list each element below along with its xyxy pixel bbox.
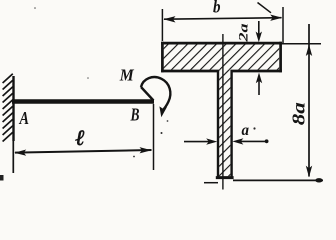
extension line left (below wall) — [12, 141, 14, 173]
dimension a: left arrow — [184, 141, 212, 143]
dimension b: extension lines — [161, 9, 163, 41]
leader slash at top right — [258, 3, 272, 13]
svg-text:b: b — [213, 0, 221, 17]
2a lower arrow — [258, 80, 260, 95]
2a upper arrow — [258, 21, 260, 38]
svg-text:M: M — [119, 66, 135, 85]
scan specks — [133, 156, 135, 158]
svg-text:ℓ: ℓ — [76, 125, 85, 150]
web hatching — [219, 70, 230, 177]
bottom extension line — [204, 182, 218, 184]
T cross-section: flange hatching — [164, 44, 280, 69]
dimension b line with arrows — [164, 18, 282, 20]
web bottom edge — [216, 176, 234, 179]
svg-text:A: A — [19, 108, 29, 128]
section vertical axis line — [222, 34, 224, 190]
svg-text:B: B — [130, 105, 140, 125]
svg-text:a: a — [242, 122, 250, 139]
dimension line l — [15, 150, 152, 153]
moment arrow (couple M at B) — [141, 77, 170, 111]
svg-text:8a: 8a — [289, 102, 309, 125]
8a dimension line — [308, 24, 310, 177]
web outline — [218, 70, 232, 177]
wall line (fixed support) — [12, 76, 14, 141]
extension line right (below B) — [153, 104, 155, 170]
beam AB — [12, 99, 154, 104]
dimension 8a: top extension line — [282, 43, 321, 45]
svg-text:2a: 2a — [237, 24, 251, 43]
wall hatching — [3, 74, 13, 142]
dimension a: right arrow — [237, 140, 266, 142]
flange outline — [161, 42, 282, 73]
